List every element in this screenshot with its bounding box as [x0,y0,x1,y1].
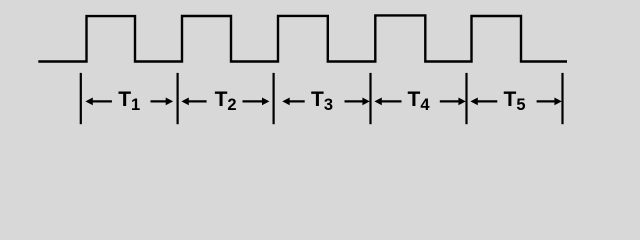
tick 5 [465,73,467,124]
svg-text:T2: T2 [215,88,237,114]
arrow left T1 [85,98,112,106]
label T4 [407,88,430,114]
arrow left T2 [181,98,206,106]
arrow left T4 [374,98,401,106]
arrow right T4 [440,98,466,106]
svg-text:T4: T4 [407,88,430,114]
svg-text:T3: T3 [311,88,333,114]
arrow right T5 [537,98,562,106]
arrow left T3 [282,98,304,106]
tick 2 [177,73,179,124]
tick 3 [273,73,275,124]
label T5 [503,88,525,114]
label T1 [118,88,140,114]
label T3 [311,88,333,114]
tick 6 [561,73,563,124]
tick 1 [80,73,82,124]
svg-text:T5: T5 [503,88,525,114]
arrow right T2 [243,98,270,106]
arrow right T1 [151,98,174,106]
square wave [38,15,567,61]
label T2 [215,88,237,114]
arrow right T3 [345,98,370,106]
arrow left T5 [470,98,497,106]
tick 4 [369,73,371,124]
svg-text:T1: T1 [118,88,140,114]
